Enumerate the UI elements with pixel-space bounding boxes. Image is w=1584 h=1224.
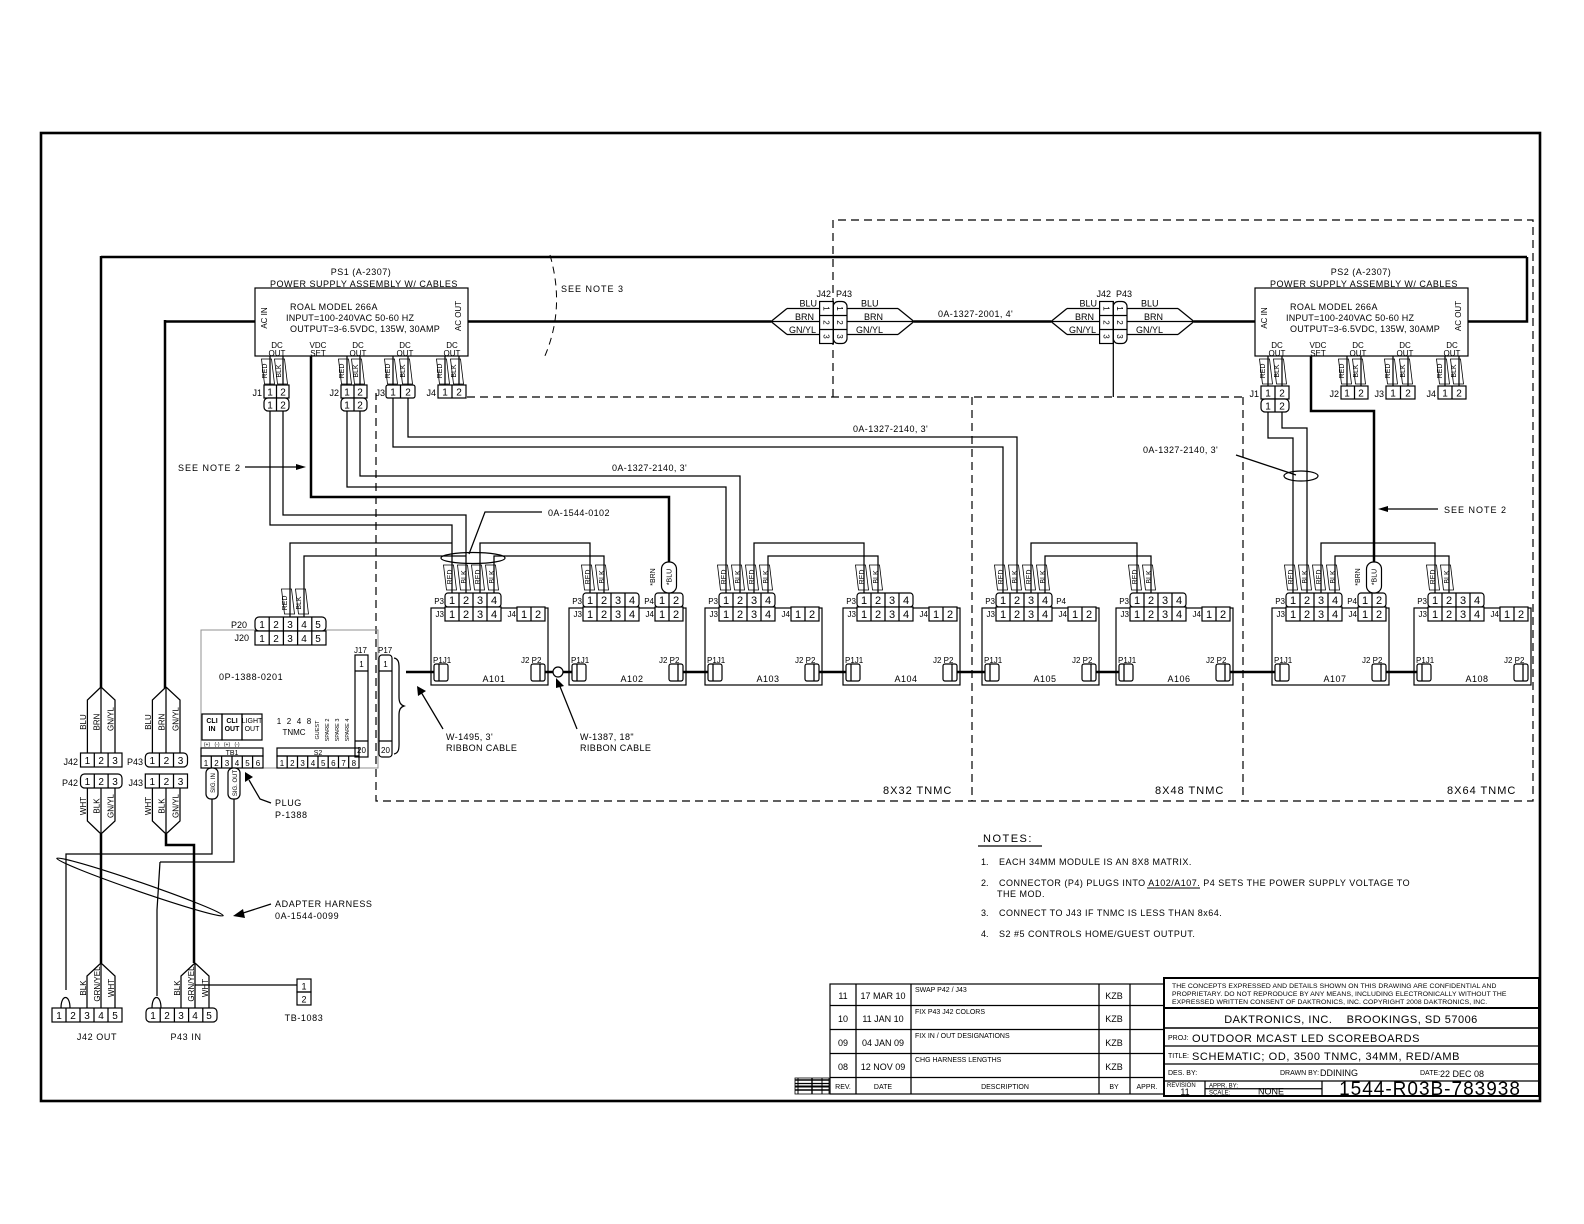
svg-text:4.: 4. xyxy=(981,929,989,939)
svg-text:4: 4 xyxy=(301,634,307,645)
svg-text:0A-1327-2001, 4': 0A-1327-2001, 4' xyxy=(938,309,1013,319)
svg-text:2: 2 xyxy=(273,634,279,645)
SEE NOTE 2 (right) with arrow xyxy=(1378,505,1507,515)
svg-text:BLK: BLK xyxy=(158,798,167,814)
svg-text:08: 08 xyxy=(838,1062,848,1072)
svg-text:17 MAR 10: 17 MAR 10 xyxy=(860,991,905,1001)
svg-text:P20: P20 xyxy=(231,620,247,630)
connector P17 with brace xyxy=(378,646,404,757)
svg-text:SEE NOTE 3: SEE NOTE 3 xyxy=(561,284,624,294)
svg-text:1.: 1. xyxy=(981,857,989,867)
adapter harness crossing ellipse xyxy=(55,854,224,920)
svg-text:2: 2 xyxy=(1279,389,1285,400)
svg-text:BLK: BLK xyxy=(599,570,606,584)
svg-text:J3: J3 xyxy=(375,388,385,398)
svg-text:EACH 34MM MODULE IS AN 8X8 MAT: EACH 34MM MODULE IS AN 8X8 MATRIX. xyxy=(999,857,1192,867)
svg-text:DDINING: DDINING xyxy=(1320,1068,1358,1078)
svg-text:LIGHT: LIGHT xyxy=(242,718,263,725)
cable label 0A-1327-2140 3' (right, with leader to A107 bundle) xyxy=(1143,445,1296,475)
svg-text:2: 2 xyxy=(70,1011,76,1022)
svg-text:3: 3 xyxy=(835,334,844,339)
svg-text:5: 5 xyxy=(315,634,321,645)
ribbon cable A102 to A103 xyxy=(683,671,708,674)
svg-text:4: 4 xyxy=(311,759,316,768)
connector J4 (PS2) xyxy=(1426,386,1466,400)
wire PS1 J2-1 to A103 P3-1 xyxy=(347,411,726,593)
svg-text:RIBBON CABLE: RIBBON CABLE xyxy=(580,743,651,753)
svg-text:OUT: OUT xyxy=(397,349,414,358)
svg-text:1: 1 xyxy=(150,756,156,767)
svg-text:1: 1 xyxy=(344,388,350,399)
connector P43 IN (cells 1-5) xyxy=(146,1008,217,1042)
svg-text:P43 IN: P43 IN xyxy=(170,1032,201,1042)
module A101 xyxy=(431,593,548,685)
svg-text:6: 6 xyxy=(331,759,336,768)
svg-text:1: 1 xyxy=(150,1011,156,1022)
connector J2 (PS1) xyxy=(329,385,367,412)
svg-text:INPUT=100-240VAC 50-60 HZ: INPUT=100-240VAC 50-60 HZ xyxy=(286,313,414,323)
svg-text:3.: 3. xyxy=(981,908,989,918)
cable bundle ellipse at A101 xyxy=(441,553,505,564)
svg-text:*BLU: *BLU xyxy=(1372,569,1379,585)
svg-text:11: 11 xyxy=(838,991,847,1001)
svg-text:1: 1 xyxy=(267,401,273,412)
svg-text:BLK: BLK xyxy=(400,364,407,378)
svg-text:WHT: WHT xyxy=(144,797,153,815)
svg-text:J42: J42 xyxy=(1096,289,1111,299)
svg-text:2: 2 xyxy=(835,320,844,325)
svg-text:BLU: BLU xyxy=(79,714,88,730)
svg-text:J20: J20 xyxy=(234,633,249,643)
svg-text:RED: RED xyxy=(1288,570,1295,585)
svg-text:ROAL MODEL 266A: ROAL MODEL 266A xyxy=(1290,302,1378,312)
svg-text:BLK: BLK xyxy=(93,798,102,814)
svg-text:11 JAN 10: 11 JAN 10 xyxy=(862,1014,903,1024)
svg-text:2: 2 xyxy=(357,401,363,412)
module A107 xyxy=(1272,593,1389,685)
lower WHT/BLK/GN-YL cable fan (P43 stack) xyxy=(144,788,181,834)
svg-text:P43: P43 xyxy=(127,757,143,767)
svg-text:RED: RED xyxy=(1430,570,1437,585)
svg-text:1: 1 xyxy=(1115,306,1124,311)
connector J42 (cells 1-3) xyxy=(63,753,122,767)
svg-text:3: 3 xyxy=(1102,334,1111,339)
svg-text:BRN: BRN xyxy=(1075,312,1094,322)
svg-text:RED: RED xyxy=(1026,570,1033,585)
svg-text:3: 3 xyxy=(287,634,293,645)
lower WHT/BLK/GN-YL cable fan (J42 stack) xyxy=(79,788,116,834)
connector J4 (PS1) xyxy=(426,385,466,399)
chain wire A107 P3-3/4 to A108 P3-1/2 xyxy=(1321,543,1435,593)
svg-text:BLK: BLK xyxy=(1353,364,1360,378)
svg-text:BLK: BLK xyxy=(173,980,182,996)
wire PS2 J1-2 to A107 P3-2 xyxy=(1282,412,1307,593)
svg-text:GRN/YEL: GRN/YEL xyxy=(93,966,102,1002)
svg-text:BLK: BLK xyxy=(296,596,303,610)
chain wire A101 P3-3/4 to A102 P3-1/2 xyxy=(480,543,590,593)
power supply PS2 (A-2307) xyxy=(1255,267,1468,358)
wire P43 IN GRN/YEL to TB-1083 xyxy=(195,984,297,986)
wire P43 stack to P43 IN fan (thick, with jog) xyxy=(166,834,194,963)
svg-text:(+): (+) xyxy=(204,742,211,748)
svg-text:RED: RED xyxy=(262,364,269,379)
svg-text:1: 1 xyxy=(390,388,396,399)
svg-text:CLI: CLI xyxy=(226,718,237,725)
module A103 xyxy=(705,593,822,685)
svg-text:1: 1 xyxy=(259,620,265,631)
svg-text:RED: RED xyxy=(437,364,444,379)
svg-text:5: 5 xyxy=(206,1011,212,1022)
svg-text:1: 1 xyxy=(280,759,285,768)
svg-text:RED: RED xyxy=(749,570,756,585)
svg-text:BY: BY xyxy=(1109,1084,1119,1091)
svg-text:2: 2 xyxy=(1115,320,1124,325)
svg-text:3: 3 xyxy=(178,756,184,767)
svg-text:1: 1 xyxy=(359,660,364,669)
drawing border frame xyxy=(41,133,1540,1101)
svg-text:BLK: BLK xyxy=(1444,570,1451,584)
wire PS1 J1-2 to A101 P3-2 xyxy=(283,411,466,593)
svg-text:DATE:: DATE: xyxy=(1420,1070,1440,1077)
svg-text:APPR.: APPR. xyxy=(1136,1084,1157,1091)
svg-text:2.: 2. xyxy=(981,878,989,888)
svg-text:2: 2 xyxy=(287,717,292,726)
wire SIG. IN down to harness xyxy=(66,799,212,990)
svg-text:SCHEMATIC; OD, 3500 TNMC,: SCHEMATIC; OD, 3500 TNMC, 34MM, RED/AMB xyxy=(1192,1051,1460,1063)
AC main loop wire (top) xyxy=(101,256,1527,688)
svg-text:2: 2 xyxy=(357,388,363,399)
wire PS1 J3-2 to A105 P3-2 xyxy=(408,398,1017,593)
svg-text:2: 2 xyxy=(214,759,219,768)
svg-text:2: 2 xyxy=(98,777,104,788)
svg-text:BLK: BLK xyxy=(1040,570,1047,584)
svg-text:CONNECTOR (P4) PLUGS INTO A102: CONNECTOR (P4) PLUGS INTO A102/A107. P4 … xyxy=(999,878,1410,888)
svg-text:2: 2 xyxy=(164,1011,170,1022)
svg-text:THE MOD.: THE MOD. xyxy=(997,889,1045,899)
svg-text:SCALE:: SCALE: xyxy=(1209,1091,1231,1097)
wire P20 BLK tap xyxy=(304,556,466,617)
svg-text:P4: P4 xyxy=(644,597,654,606)
chain wire A105 P3-3/4 to A106 P3-1/2 xyxy=(1031,543,1137,593)
wire PS2 VDC SET to A107 P4 (thick) xyxy=(1311,356,1374,566)
svg-text:RED: RED xyxy=(859,570,866,585)
svg-text:J4: J4 xyxy=(1426,389,1436,399)
svg-text:*BRN: *BRN xyxy=(1355,568,1362,586)
chain wire A103 P3-3/4 to A104 P3-1/2 xyxy=(754,543,864,593)
svg-text:A107: A107 xyxy=(1323,674,1346,684)
RED/BLK wire flags above module P3 pins xyxy=(444,565,1454,590)
svg-text:BLK: BLK xyxy=(461,570,468,584)
connector P4 on A102 with +BRN/+BLU flags xyxy=(644,562,683,607)
svg-text:CLI: CLI xyxy=(206,718,217,725)
PS2 output wire stubs with RED/BLK flags xyxy=(1260,356,1464,386)
svg-text:04 JAN 09: 04 JAN 09 xyxy=(862,1038,904,1048)
svg-text:OUTDOOR MCAST LED SCOREBOAR: OUTDOOR MCAST LED SCOREBOARDS xyxy=(1192,1033,1420,1045)
svg-text:6: 6 xyxy=(256,759,261,768)
connector P4 on A107 with +BRN/+BLU flags xyxy=(1347,562,1386,607)
svg-text:1: 1 xyxy=(85,756,91,767)
svg-text:KZB: KZB xyxy=(1105,991,1123,1001)
module A102 xyxy=(569,593,686,685)
svg-text:P42: P42 xyxy=(62,778,78,788)
svg-text:RIBBON CABLE: RIBBON CABLE xyxy=(446,743,517,753)
svg-text:J1: J1 xyxy=(252,388,262,398)
connector P43 (cells 1-3) xyxy=(127,753,188,767)
svg-text:J42: J42 xyxy=(63,757,78,767)
ribbon cable A101 to A102 with connector circle xyxy=(545,667,572,677)
svg-text:P43: P43 xyxy=(836,289,852,299)
svg-text:GN/YL: GN/YL xyxy=(856,325,883,335)
svg-text:BLK: BLK xyxy=(1274,364,1281,378)
ribbon cable A103 to A104 xyxy=(819,671,846,674)
svg-text:KZB: KZB xyxy=(1105,1062,1123,1072)
svg-text:1: 1 xyxy=(1265,402,1271,413)
SEE NOTE 2 (left) with arrow xyxy=(178,463,306,473)
svg-text:FIX P43 J42 COLORS: FIX P43 J42 COLORS xyxy=(915,1009,985,1016)
svg-text:3: 3 xyxy=(822,334,831,339)
svg-text:AC OUT: AC OUT xyxy=(454,301,463,331)
P43 IN pins 3-5 cable fan xyxy=(173,963,210,1008)
svg-text:5: 5 xyxy=(321,759,326,768)
svg-text:1: 1 xyxy=(56,1011,62,1022)
svg-text:4: 4 xyxy=(192,1011,198,1022)
svg-text:(-): (-) xyxy=(215,742,220,748)
svg-text:BLU: BLU xyxy=(144,714,153,730)
svg-text:DAKTRONICS, INC. BROOKINGS,: DAKTRONICS, INC. BROOKINGS, SD 57006 xyxy=(1224,1014,1478,1026)
ribbon cable A106 to A107 xyxy=(1230,671,1275,674)
J42 OUT pin-1 dome xyxy=(61,998,70,1009)
svg-text:GN/YL: GN/YL xyxy=(172,706,181,731)
svg-text:J1: J1 xyxy=(1249,389,1259,399)
svg-text:1: 1 xyxy=(442,388,448,399)
module A108 xyxy=(1414,593,1531,685)
svg-text:(+): (+) xyxy=(224,742,231,748)
svg-text:GRN/YEL: GRN/YEL xyxy=(187,966,196,1002)
svg-text:BLK: BLK xyxy=(353,364,360,378)
svg-text:0A-1327-2140, 3': 0A-1327-2140, 3' xyxy=(853,424,928,434)
svg-text:TNMC: TNMC xyxy=(282,728,305,737)
connector J1 (PS2) xyxy=(1249,386,1289,413)
svg-text:A101: A101 xyxy=(482,674,505,684)
svg-text:SIG. IN: SIG. IN xyxy=(211,773,217,793)
AC connector pair J42/P43 (right, near PS2) xyxy=(1051,289,1194,397)
svg-text:A105: A105 xyxy=(1033,674,1056,684)
svg-text:A103: A103 xyxy=(756,674,779,684)
cable label 0A-1544-0102 with leader to A101 bundle xyxy=(469,508,610,554)
svg-text:AC OUT: AC OUT xyxy=(1454,301,1463,331)
svg-text:EXPRESSED WRITTEN CONSENT OF: EXPRESSED WRITTEN CONSENT OF DAKTRONICS,… xyxy=(1172,999,1487,1006)
ribbon cable from P17 to A101 xyxy=(406,671,434,674)
svg-text:2: 2 xyxy=(673,595,679,607)
label PLUG P-1388 with arrow xyxy=(245,772,308,820)
svg-text:0A-1327-2140, 3': 0A-1327-2140, 3' xyxy=(612,463,687,473)
revision history table xyxy=(830,984,1164,1094)
svg-text:BLK: BLK xyxy=(1451,364,1458,378)
wire SIG. OUT down to harness xyxy=(160,799,234,862)
svg-text:RED: RED xyxy=(721,570,728,585)
P43 IN pin-1 dome xyxy=(152,998,161,1009)
svg-text:1: 1 xyxy=(1265,389,1271,400)
svg-text:RED: RED xyxy=(1260,364,1267,379)
connector P42 (cells 1-3) xyxy=(62,774,122,788)
svg-text:0A-1544-0102: 0A-1544-0102 xyxy=(548,508,610,518)
svg-text:P-1388: P-1388 xyxy=(275,810,308,820)
svg-text:OUT: OUT xyxy=(1397,349,1414,358)
svg-text:BLU: BLU xyxy=(861,299,879,309)
svg-text:(-): (-) xyxy=(235,742,240,748)
svg-text:BLK: BLK xyxy=(79,980,88,996)
svg-text:10: 10 xyxy=(838,1014,848,1024)
svg-text:BLK: BLK xyxy=(1400,364,1407,378)
svg-text:2: 2 xyxy=(1279,402,1285,413)
svg-text:RED: RED xyxy=(1316,570,1323,585)
svg-text:*BLU: *BLU xyxy=(667,569,674,585)
svg-text:PROJ:: PROJ: xyxy=(1168,1035,1189,1042)
title block xyxy=(1164,978,1539,1100)
svg-text:8X32 TNMC: 8X32 TNMC xyxy=(883,785,952,797)
connector J3 (PS1) xyxy=(375,385,415,399)
svg-text:BRN: BRN xyxy=(93,713,102,730)
svg-text:IN: IN xyxy=(209,726,216,733)
svg-text:1: 1 xyxy=(383,660,388,669)
svg-text:SIG. OUT: SIG. OUT xyxy=(233,770,239,797)
connector P20/J20 on controller xyxy=(231,589,326,645)
svg-text:22 DEC 08: 22 DEC 08 xyxy=(1440,1069,1484,1079)
svg-text:OUTPUT=3-6.5VDC, 135W, 30AMP: OUTPUT=3-6.5VDC, 135W, 30AMP xyxy=(290,324,440,334)
svg-text:RED: RED xyxy=(1339,364,1346,379)
svg-text:WHT: WHT xyxy=(107,979,116,997)
svg-text:A102: A102 xyxy=(620,674,643,684)
svg-text:PROPRIETARY. DO NOT REPRODU: PROPRIETARY. DO NOT REPRODUCE BY ANY MEA… xyxy=(1172,991,1507,998)
terminal TB-1083 xyxy=(285,979,324,1023)
svg-text:J2: J2 xyxy=(329,388,339,398)
svg-text:THE CONCEPTS EXPRESSED AND: THE CONCEPTS EXPRESSED AND DETAILS SHOWN… xyxy=(1172,983,1497,990)
wire PS1 J2-2 to A103 P3-2 xyxy=(360,411,740,593)
svg-text:BLK: BLK xyxy=(1146,570,1153,584)
svg-text:BLK: BLK xyxy=(763,570,770,584)
svg-text:BLK: BLK xyxy=(735,570,742,584)
svg-text:GUEST: GUEST xyxy=(315,720,321,740)
PS1 output wire stubs with RED/BLK flags xyxy=(262,356,464,385)
svg-text:A106: A106 xyxy=(1167,674,1190,684)
svg-text:SPARE 2: SPARE 2 xyxy=(325,719,331,742)
svg-text:8X48 TNMC: 8X48 TNMC xyxy=(1155,785,1224,797)
svg-text:ROAL MODEL 266A: ROAL MODEL 266A xyxy=(290,302,378,312)
svg-text:1: 1 xyxy=(1102,306,1111,311)
wire PS2 J1-1 to A107 P3-1 xyxy=(1268,412,1293,593)
svg-text:SPARE 4: SPARE 4 xyxy=(345,719,351,742)
svg-text:1: 1 xyxy=(150,777,156,788)
svg-text:OUT: OUT xyxy=(225,726,241,733)
svg-text:PS1 (A-2307): PS1 (A-2307) xyxy=(331,267,392,277)
DIP switch S2 xyxy=(277,717,359,768)
svg-text:2: 2 xyxy=(280,401,286,412)
svg-text:GN/YL: GN/YL xyxy=(107,793,116,818)
svg-text:3: 3 xyxy=(178,1011,184,1022)
svg-text:OUT: OUT xyxy=(1350,349,1367,358)
AC connector pair J42/P43 (left, at dashed box edge) xyxy=(771,289,914,344)
svg-text:DATE: DATE xyxy=(874,1084,892,1091)
terminal block TB1 xyxy=(201,714,263,768)
upper BLU/BRN/GN-YL cable fan (P43 stack) xyxy=(144,687,181,753)
svg-text:BRN: BRN xyxy=(158,713,167,730)
svg-text:2: 2 xyxy=(273,620,279,631)
svg-text:J3: J3 xyxy=(1374,389,1384,399)
svg-text:2: 2 xyxy=(164,777,170,788)
svg-text:8X64 TNMC: 8X64 TNMC xyxy=(1447,785,1516,797)
wire PS1 J3-1 to A105 P3-1 xyxy=(393,398,1003,593)
svg-text:1: 1 xyxy=(344,401,350,412)
svg-text:20: 20 xyxy=(381,746,390,755)
svg-text:ADAPTER HARNESS: ADAPTER HARNESS xyxy=(275,899,373,909)
svg-text:RED: RED xyxy=(1132,570,1139,585)
svg-text:OUT: OUT xyxy=(1269,349,1286,358)
svg-text:3: 3 xyxy=(178,777,184,788)
svg-text:2: 2 xyxy=(164,756,170,767)
ribbon cable A104 to A105 xyxy=(957,671,985,674)
svg-text:2: 2 xyxy=(290,759,295,768)
svg-text:GN/YL: GN/YL xyxy=(172,793,181,818)
svg-text:1: 1 xyxy=(1362,595,1368,607)
svg-text:BLK: BLK xyxy=(276,364,283,378)
svg-text:0A-1544-0099: 0A-1544-0099 xyxy=(275,911,339,921)
svg-text:2: 2 xyxy=(405,388,411,399)
svg-text:J42: J42 xyxy=(816,289,831,299)
svg-text:CONNECT TO J43 IF TNMC IS LESS: CONNECT TO J43 IF TNMC IS LESS THAN 8x64… xyxy=(999,908,1222,918)
ribbon cable A105 to A106 xyxy=(1096,671,1119,674)
svg-text:8: 8 xyxy=(307,717,312,726)
svg-text:3: 3 xyxy=(1115,334,1124,339)
svg-text:1: 1 xyxy=(259,634,265,645)
svg-text:BLK: BLK xyxy=(1302,570,1309,584)
barcode mark xyxy=(795,1078,829,1094)
svg-text:1: 1 xyxy=(659,595,665,607)
svg-text:INPUT=100-240VAC 50-60 HZ: INPUT=100-240VAC 50-60 HZ xyxy=(1286,313,1414,323)
svg-text:1: 1 xyxy=(822,306,831,311)
svg-text:AC IN: AC IN xyxy=(1260,307,1269,329)
cable bundle ellipse at A107 xyxy=(1284,471,1318,481)
svg-text:BLK: BLK xyxy=(1012,570,1019,584)
svg-text:0P-1388-0201: 0P-1388-0201 xyxy=(219,672,283,682)
svg-text:4: 4 xyxy=(301,620,307,631)
controller box 0P-1388-0201 (grey) xyxy=(201,630,378,768)
wire to P43 IN pin 1 xyxy=(157,862,160,996)
svg-text:OUT: OUT xyxy=(350,349,367,358)
svg-text:3: 3 xyxy=(287,620,293,631)
svg-text:3: 3 xyxy=(225,759,230,768)
svg-text:4: 4 xyxy=(98,1011,104,1022)
svg-text:RED: RED xyxy=(1437,364,1444,379)
SIG. OUT flag under TB1 xyxy=(228,768,240,799)
svg-text:1: 1 xyxy=(301,982,306,992)
svg-text:5: 5 xyxy=(112,1011,118,1022)
svg-text:PS2 (A-2307): PS2 (A-2307) xyxy=(1331,267,1392,277)
svg-text:GN/YL: GN/YL xyxy=(1136,325,1163,335)
svg-text:2: 2 xyxy=(1405,389,1411,400)
svg-text:DESCRIPTION: DESCRIPTION xyxy=(981,1084,1029,1091)
svg-text:PLUG: PLUG xyxy=(275,798,302,808)
SEE NOTE 3 dashed arc xyxy=(544,255,557,358)
svg-text:BRN: BRN xyxy=(864,312,883,322)
svg-text:W-1495, 3': W-1495, 3' xyxy=(446,732,493,742)
svg-text:*BRN: *BRN xyxy=(650,568,657,586)
svg-text:2: 2 xyxy=(822,320,831,325)
svg-text:2: 2 xyxy=(456,388,462,399)
upper BLU/BRN/GN-YL cable fan (J42 stack) xyxy=(79,687,116,753)
connector J42 OUT (cells 1-5) xyxy=(52,1008,122,1042)
svg-text:A104: A104 xyxy=(894,674,917,684)
wire PS1 VDC SET to A102 P4 (thick) xyxy=(311,356,669,566)
